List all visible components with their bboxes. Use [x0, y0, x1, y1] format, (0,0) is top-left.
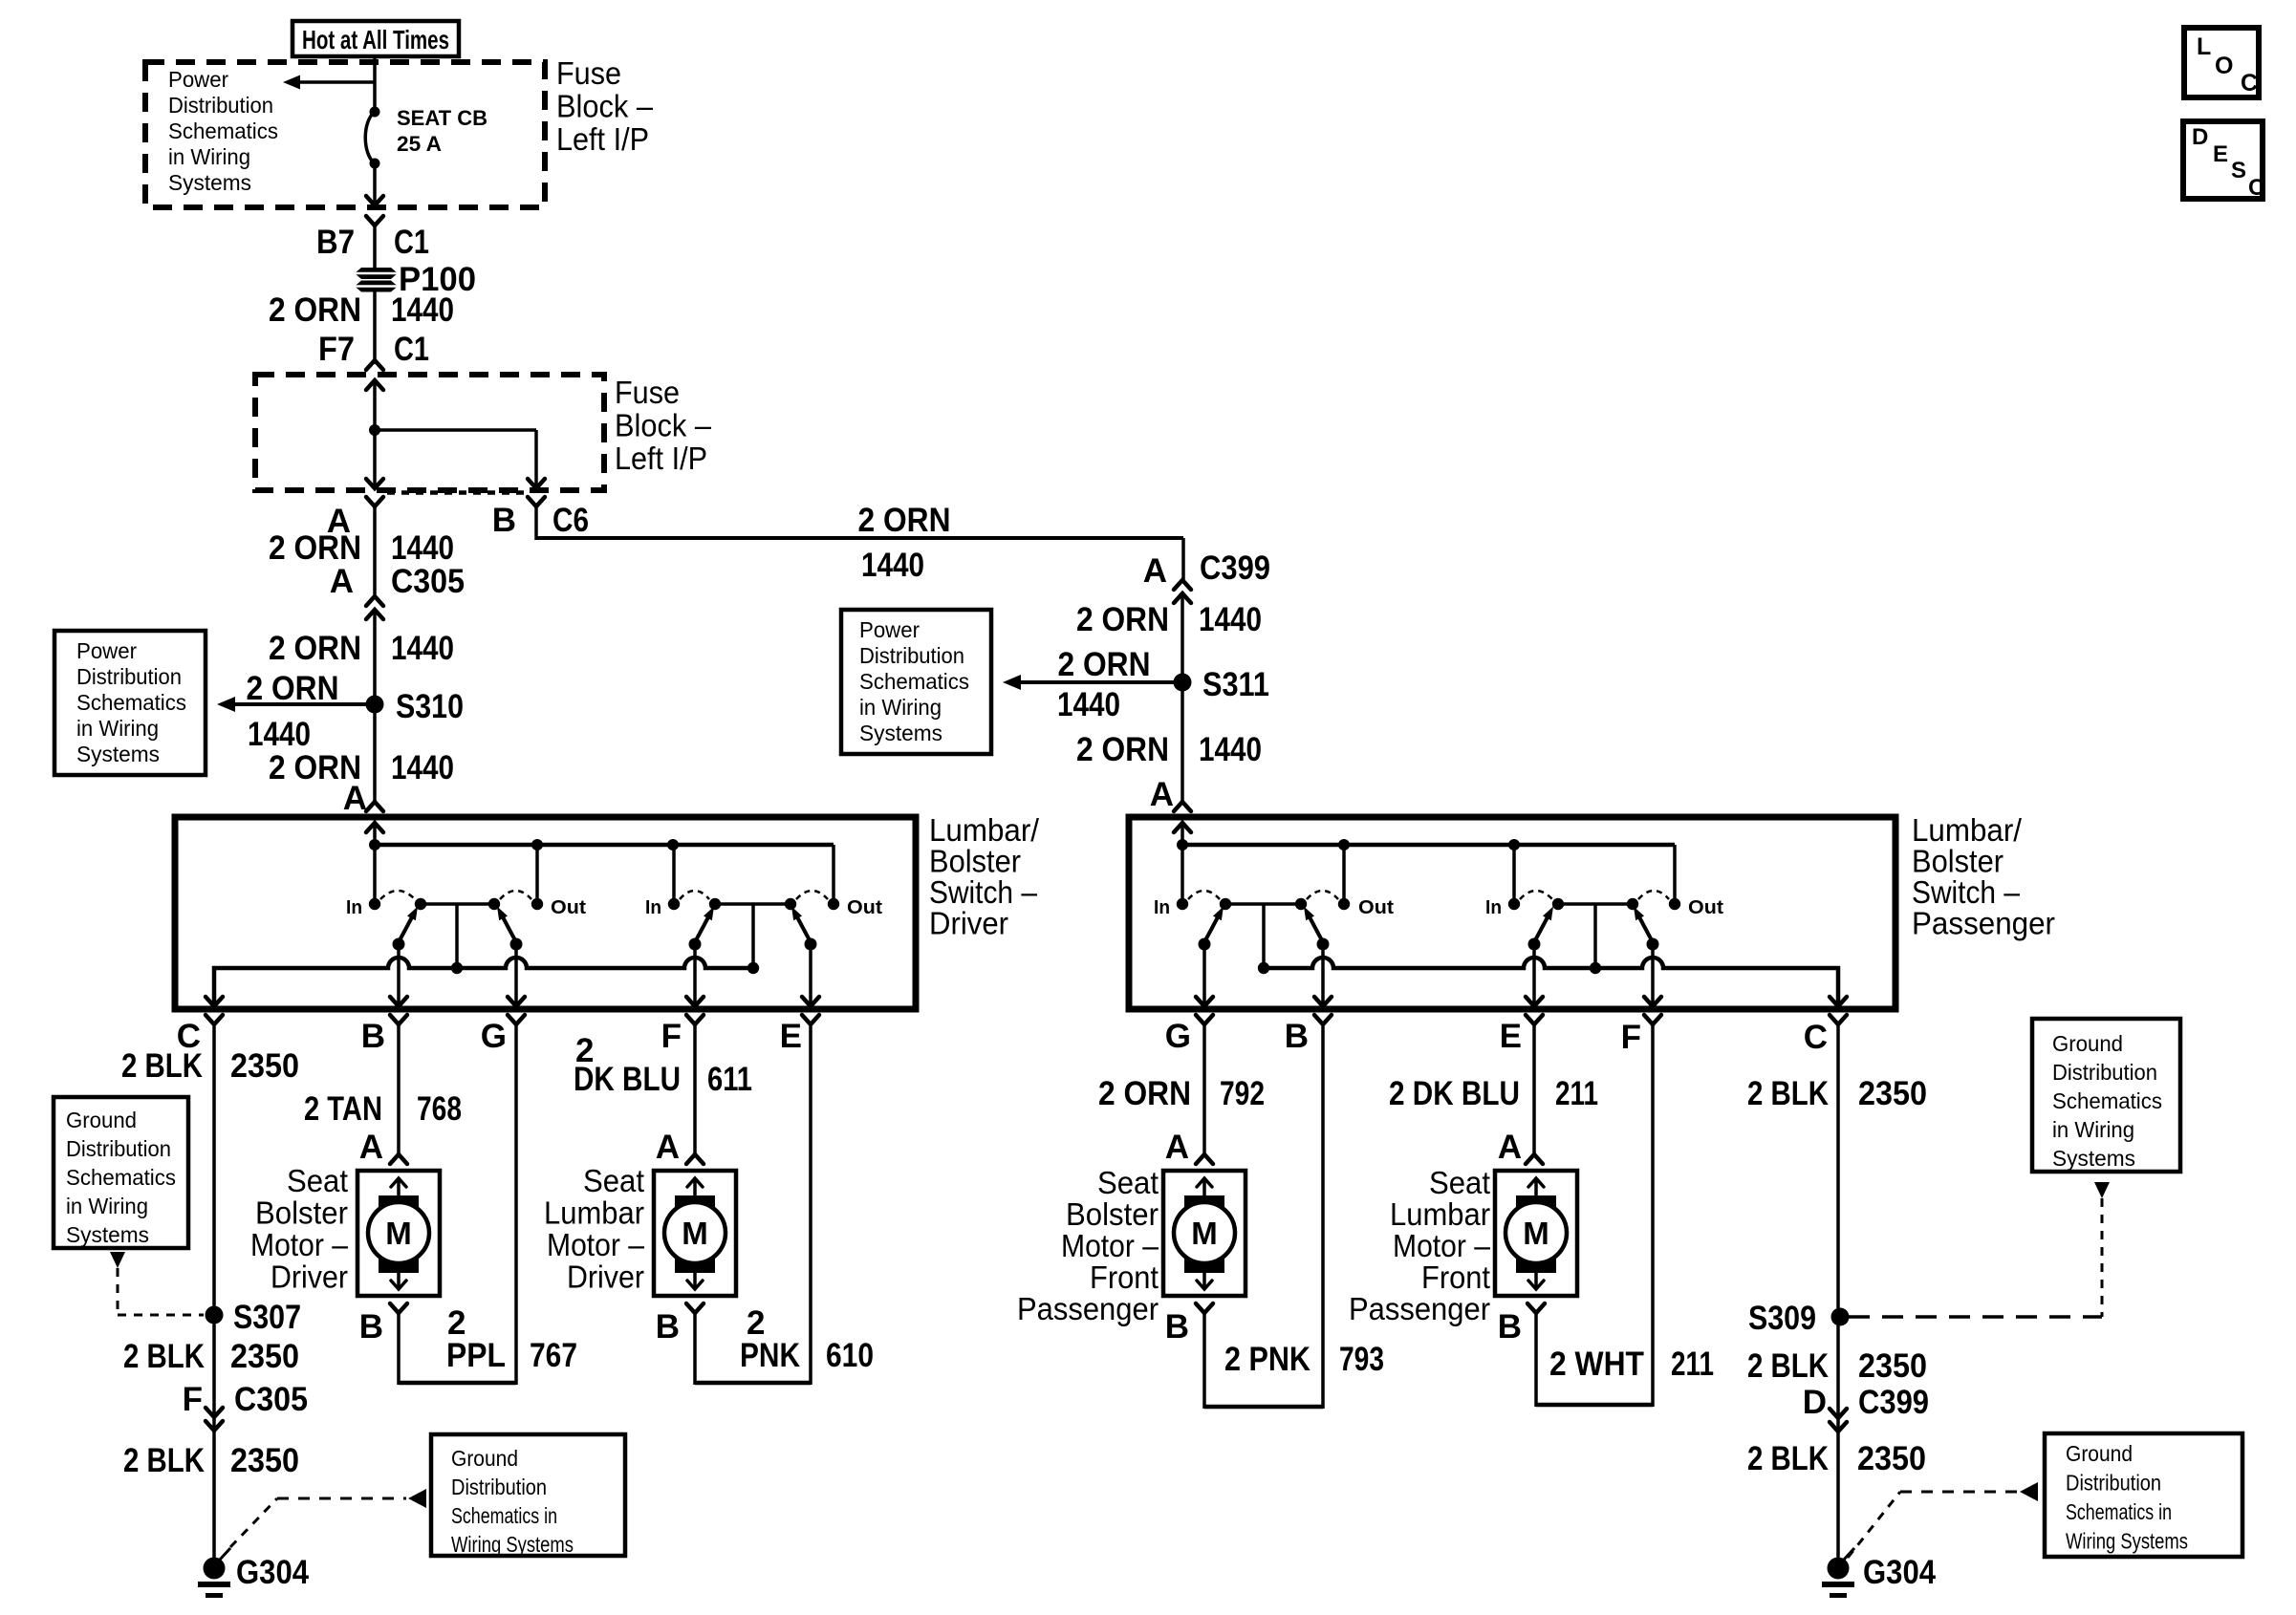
svg-text:1440: 1440 — [248, 716, 311, 753]
svg-text:Out: Out — [1358, 897, 1394, 918]
svg-text:G: G — [1165, 1018, 1191, 1055]
svg-text:2 ORN: 2 ORN — [1076, 601, 1169, 638]
svg-text:2 ORN: 2 ORN — [1058, 646, 1151, 683]
svg-text:Driver: Driver — [271, 1260, 348, 1295]
svg-text:Schematics: Schematics — [859, 669, 969, 694]
svg-text:Distribution: Distribution — [66, 1136, 171, 1161]
svg-text:A: A — [1143, 552, 1167, 590]
svg-text:in Wiring: in Wiring — [76, 716, 159, 741]
svg-text:211: 211 — [1555, 1075, 1598, 1112]
svg-text:1440: 1440 — [861, 547, 924, 584]
svg-text:Lumbar/: Lumbar/ — [929, 812, 1040, 848]
svg-text:In: In — [1485, 897, 1502, 918]
svg-text:F: F — [1621, 1019, 1641, 1056]
svg-text:Motor –: Motor – — [547, 1227, 645, 1262]
svg-text:B7: B7 — [316, 224, 355, 261]
svg-text:Distribution: Distribution — [76, 664, 182, 689]
svg-text:Wiring Systems: Wiring Systems — [2066, 1529, 2188, 1554]
svg-text:Motor –: Motor – — [1393, 1228, 1491, 1263]
svg-text:Front: Front — [1090, 1260, 1159, 1295]
svg-text:610: 610 — [826, 1337, 874, 1374]
svg-text:2 PNK: 2 PNK — [1224, 1341, 1310, 1378]
svg-text:Fuse: Fuse — [556, 55, 621, 91]
svg-text:Power: Power — [76, 638, 137, 663]
svg-text:Bolster: Bolster — [255, 1195, 348, 1231]
svg-text:A: A — [656, 1129, 680, 1166]
svg-text:In: In — [346, 897, 362, 918]
svg-text:in Wiring: in Wiring — [168, 144, 250, 169]
svg-text:C1: C1 — [394, 331, 429, 368]
svg-text:Seat: Seat — [583, 1163, 644, 1198]
svg-text:A: A — [330, 563, 354, 600]
svg-text:Seat: Seat — [1429, 1165, 1490, 1200]
svg-text:O: O — [2215, 53, 2233, 79]
svg-text:Passenger: Passenger — [1017, 1291, 1159, 1326]
svg-text:C: C — [2241, 70, 2258, 97]
svg-text:S310: S310 — [396, 688, 464, 725]
svg-text:1440: 1440 — [391, 630, 454, 667]
svg-text:Switch –: Switch – — [929, 874, 1038, 910]
svg-text:C305: C305 — [391, 563, 465, 600]
svg-text:1440: 1440 — [391, 291, 454, 329]
svg-text:2 ORN: 2 ORN — [858, 502, 951, 539]
svg-text:Seat: Seat — [1097, 1165, 1159, 1200]
svg-text:2 DK BLU: 2 DK BLU — [1389, 1075, 1520, 1112]
svg-text:L: L — [2197, 33, 2211, 60]
svg-text:1440: 1440 — [1199, 731, 1262, 768]
svg-text:Motor –: Motor – — [1061, 1228, 1159, 1263]
svg-text:2 WHT: 2 WHT — [1549, 1346, 1644, 1383]
svg-text:C399: C399 — [1858, 1384, 1929, 1421]
svg-text:in Wiring: in Wiring — [859, 695, 942, 720]
svg-text:C6: C6 — [552, 502, 589, 539]
svg-text:A: A — [1498, 1129, 1522, 1166]
svg-text:Schematics in: Schematics in — [2066, 1499, 2172, 1524]
svg-text:2350: 2350 — [230, 1047, 299, 1085]
svg-text:Systems: Systems — [2052, 1146, 2135, 1171]
svg-text:2350: 2350 — [230, 1338, 299, 1375]
svg-text:2 ORN: 2 ORN — [269, 630, 361, 667]
svg-text:Ground: Ground — [451, 1446, 518, 1471]
svg-text:Switch –: Switch – — [1912, 874, 2021, 910]
svg-text:Distribution: Distribution — [2052, 1060, 2157, 1085]
svg-text:2 BLK: 2 BLK — [1747, 1075, 1829, 1112]
svg-text:B: B — [1285, 1018, 1309, 1055]
svg-text:Motor –: Motor – — [250, 1227, 349, 1262]
svg-text:2 ORN: 2 ORN — [247, 670, 339, 707]
svg-text:Passenger: Passenger — [1912, 906, 2055, 941]
svg-text:Wiring Systems: Wiring Systems — [451, 1532, 574, 1557]
svg-text:B: B — [359, 1308, 383, 1346]
svg-text:Distribution: Distribution — [2066, 1471, 2161, 1496]
svg-text:F: F — [183, 1381, 203, 1418]
svg-text:Lumbar: Lumbar — [544, 1195, 644, 1231]
svg-text:Distribution: Distribution — [168, 93, 273, 118]
svg-text:Schematics: Schematics — [2052, 1088, 2162, 1113]
svg-text:2 BLK: 2 BLK — [123, 1442, 205, 1479]
svg-text:M: M — [1523, 1216, 1549, 1251]
svg-text:Power: Power — [168, 67, 228, 92]
svg-text:767: 767 — [530, 1337, 577, 1374]
svg-text:Ground: Ground — [2066, 1441, 2133, 1466]
svg-text:Schematics: Schematics — [76, 690, 186, 715]
svg-text:Distribution: Distribution — [859, 643, 964, 668]
svg-text:G: G — [481, 1018, 507, 1055]
svg-text:Left I/P: Left I/P — [556, 121, 649, 157]
svg-text:2 ORN: 2 ORN — [1098, 1075, 1191, 1112]
svg-text:B: B — [656, 1308, 680, 1346]
svg-text:2 TAN: 2 TAN — [304, 1090, 382, 1128]
svg-text:2 BLK: 2 BLK — [123, 1338, 205, 1375]
svg-text:E: E — [2213, 141, 2228, 167]
svg-text:792: 792 — [1220, 1075, 1265, 1112]
svg-text:Front: Front — [1421, 1260, 1490, 1295]
svg-text:Lumbar/: Lumbar/ — [1912, 812, 2023, 848]
svg-text:Bolster: Bolster — [929, 844, 1021, 879]
svg-text:D: D — [2192, 124, 2208, 150]
svg-text:PPL: PPL — [446, 1337, 506, 1374]
svg-text:E: E — [780, 1018, 802, 1055]
svg-text:Driver: Driver — [929, 906, 1008, 941]
svg-text:Fuse: Fuse — [615, 375, 680, 410]
svg-text:Power: Power — [859, 617, 920, 642]
svg-text:Block –: Block – — [615, 408, 712, 443]
svg-text:A: A — [359, 1129, 383, 1166]
svg-text:Systems: Systems — [76, 742, 160, 766]
svg-text:in Wiring: in Wiring — [2052, 1117, 2134, 1142]
svg-text:In: In — [645, 897, 661, 918]
svg-text:1440: 1440 — [391, 749, 454, 786]
svg-text:B: B — [492, 502, 516, 539]
svg-text:S307: S307 — [233, 1299, 301, 1336]
svg-text:S311: S311 — [1202, 666, 1269, 703]
svg-text:F7: F7 — [318, 331, 355, 368]
svg-text:D: D — [1803, 1384, 1827, 1421]
svg-text:S309: S309 — [1748, 1300, 1816, 1337]
svg-text:B: B — [1498, 1308, 1522, 1346]
svg-text:A: A — [343, 780, 367, 817]
svg-text:2350: 2350 — [1858, 1347, 1927, 1385]
svg-text:G304: G304 — [236, 1554, 309, 1591]
svg-text:Schematics: Schematics — [66, 1165, 176, 1190]
svg-text:Seat: Seat — [287, 1163, 348, 1198]
svg-text:C305: C305 — [234, 1381, 308, 1418]
svg-text:768: 768 — [417, 1090, 462, 1128]
svg-text:S: S — [2231, 158, 2246, 183]
svg-text:Bolster: Bolster — [1912, 844, 2004, 879]
svg-text:SEAT CB: SEAT CB — [397, 106, 487, 130]
svg-text:611: 611 — [707, 1061, 752, 1098]
svg-text:M: M — [682, 1216, 708, 1251]
svg-text:B: B — [361, 1018, 385, 1055]
svg-text:PNK: PNK — [740, 1337, 800, 1374]
svg-text:25 A: 25 A — [397, 132, 442, 156]
svg-text:Out: Out — [1688, 897, 1723, 918]
svg-text:C1: C1 — [394, 224, 429, 261]
svg-text:Bolster: Bolster — [1066, 1196, 1159, 1232]
svg-text:Systems: Systems — [168, 170, 251, 195]
svg-text:1440: 1440 — [1057, 686, 1120, 723]
svg-text:C399: C399 — [1200, 549, 1270, 587]
svg-text:Systems: Systems — [859, 721, 942, 745]
svg-text:C: C — [2248, 175, 2264, 201]
svg-text:G304: G304 — [1863, 1554, 1936, 1591]
svg-text:In: In — [1154, 897, 1170, 918]
svg-text:2 BLK: 2 BLK — [1747, 1347, 1829, 1385]
svg-text:2 ORN: 2 ORN — [1076, 731, 1169, 768]
svg-text:2350: 2350 — [230, 1442, 299, 1479]
svg-text:1440: 1440 — [1199, 601, 1262, 638]
svg-text:Hot at All Times: Hot at All Times — [302, 25, 449, 54]
svg-text:Systems: Systems — [66, 1222, 149, 1247]
svg-text:Block –: Block – — [556, 89, 654, 124]
svg-text:E: E — [1500, 1018, 1522, 1055]
svg-text:793: 793 — [1339, 1341, 1384, 1378]
svg-text:211: 211 — [1671, 1346, 1714, 1383]
svg-text:C: C — [1804, 1019, 1828, 1056]
svg-text:Schematics: Schematics — [168, 118, 278, 143]
svg-text:A: A — [1165, 1129, 1189, 1166]
svg-text:Ground: Ground — [66, 1108, 137, 1132]
svg-text:Out: Out — [847, 897, 882, 918]
svg-text:M: M — [385, 1216, 412, 1251]
svg-text:Passenger: Passenger — [1349, 1291, 1490, 1326]
svg-text:2350: 2350 — [1858, 1075, 1927, 1112]
svg-text:DK BLU: DK BLU — [574, 1061, 681, 1098]
svg-text:Left I/P: Left I/P — [615, 441, 707, 476]
svg-text:2 ORN: 2 ORN — [269, 529, 361, 567]
svg-text:Distribution: Distribution — [451, 1475, 547, 1499]
svg-text:1440: 1440 — [391, 529, 454, 567]
svg-text:Schematics in: Schematics in — [451, 1503, 557, 1528]
svg-text:B: B — [1165, 1308, 1189, 1346]
svg-text:Driver: Driver — [567, 1260, 644, 1295]
svg-text:2 BLK: 2 BLK — [121, 1047, 203, 1085]
svg-text:M: M — [1191, 1216, 1218, 1251]
svg-text:A: A — [1150, 776, 1174, 813]
svg-text:Lumbar: Lumbar — [1390, 1196, 1490, 1232]
svg-text:Out: Out — [551, 897, 586, 918]
svg-text:Ground: Ground — [2052, 1031, 2123, 1056]
svg-text:2350: 2350 — [1857, 1440, 1926, 1477]
svg-text:F: F — [661, 1018, 682, 1055]
svg-text:2 BLK: 2 BLK — [1747, 1440, 1829, 1477]
svg-text:in Wiring: in Wiring — [66, 1194, 148, 1218]
svg-text:2 ORN: 2 ORN — [269, 291, 361, 329]
